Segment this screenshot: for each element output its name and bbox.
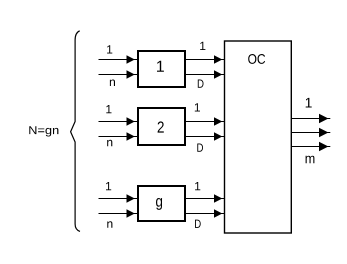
wire output a of block g to OC [185,194,225,202]
coder block 2 [138,108,185,145]
label 1 above input wire of block 2 [106,105,111,113]
wire input a of block g [99,194,138,202]
label 1 above OC output wires [306,98,312,108]
wire input a of block 1 [99,55,138,63]
label n below input wire of block 1 [110,80,115,87]
label n below input wire of block 2 [107,140,112,147]
label 1 above input wire of block 1 [107,45,112,53]
wire output a of block 1 to OC [185,55,225,63]
label n below input wire of block g [107,221,112,228]
wire input b of block 1 [99,70,138,78]
label 1 above output wire of block g [195,182,200,190]
wire input b of block 2 [99,132,138,140]
wire output b of block 2 to OC [185,132,225,140]
label D below output wire of block 1 [198,80,204,88]
label 1 above output wire of block 2 [195,103,200,111]
wire output a of block 2 to OC [185,117,225,125]
label 1 above output wire of block 1 [200,42,205,50]
OC block [225,41,292,233]
label D below output wire of block g [195,220,201,228]
label N=gn [29,126,58,136]
label OC inside OC block [248,54,265,64]
label m below OC output wires [306,156,315,164]
label 1 inside block 1 [157,61,164,72]
OC output wire 1 [291,114,330,123]
label D below output wire of block 2 [197,144,203,152]
wire input a of block 2 [99,117,138,125]
OC output wire 2 [291,128,330,137]
wire output b of block 1 to OC [185,70,225,78]
OC output wire 3 [291,142,330,151]
label 1 above input wire of block g [106,182,111,190]
brace grouping the g coder blocks [71,31,80,232]
label g inside block g [156,198,162,210]
wire output b of block g to OC [185,209,225,217]
coder block g [138,186,185,221]
label 2 inside block 2 [158,121,164,132]
wire input b of block g [99,209,138,217]
coder block 1 [138,51,185,87]
